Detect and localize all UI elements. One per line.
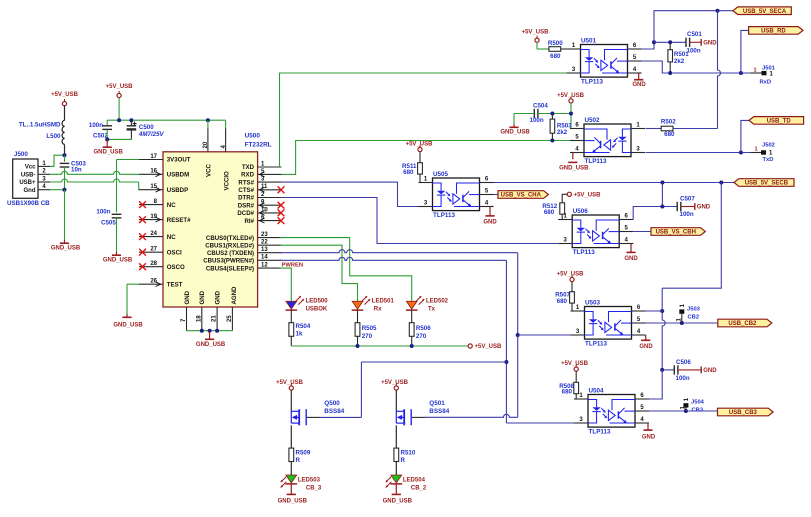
- svg-text:USB-: USB-: [21, 173, 36, 179]
- svg-text:15: 15: [150, 184, 157, 190]
- pin 6 RI#: [258, 220, 282, 222]
- power +5V_USB (R500): [535, 38, 539, 42]
- svg-text:U506: U506: [573, 208, 589, 215]
- svg-text:+5V_USB: +5V_USB: [557, 93, 585, 99]
- svg-text:+5V_USB: +5V_USB: [276, 380, 304, 386]
- wire U503 pin6 to SECB: [646, 310, 663, 312]
- svg-text:GND: GND: [703, 41, 717, 47]
- wire USBDM: [50, 171, 139, 174]
- svg-text:U505: U505: [433, 171, 449, 178]
- wire GND bus bottom: [187, 330, 233, 332]
- svg-text:100n: 100n: [680, 211, 694, 218]
- svg-text:NC: NC: [167, 202, 176, 209]
- svg-text:GND: GND: [697, 205, 711, 211]
- svg-text:CBUS0(TXLED#): CBUS0(TXLED#): [206, 235, 254, 242]
- ground GND_USB (LED503): [290, 484, 292, 494]
- svg-text:U501: U501: [581, 38, 597, 45]
- svg-text:RI#: RI#: [245, 218, 255, 225]
- ground GND (C507): [681, 206, 695, 208]
- power +5V_USB (Q501): [394, 386, 398, 390]
- svg-text:GND: GND: [703, 368, 717, 374]
- pin 16 USBDM: [139, 173, 163, 175]
- svg-text:C505: C505: [101, 219, 116, 226]
- svg-text:GND_USB: GND_USB: [113, 323, 143, 329]
- svg-text:+5V_USB: +5V_USB: [522, 29, 550, 35]
- svg-text:USB_RD: USB_RD: [761, 29, 786, 35]
- svg-text:R506: R506: [416, 325, 431, 332]
- svg-text:LED503: LED503: [298, 478, 321, 484]
- ground GND_USB (C502): [106, 139, 108, 147]
- svg-text:GND_USB: GND_USB: [559, 166, 589, 172]
- svg-text:CBUS2 (TXDEN): CBUS2 (TXDEN): [207, 250, 254, 257]
- svg-text:100n: 100n: [96, 208, 110, 215]
- svg-text:TLP113: TLP113: [585, 340, 608, 347]
- transistor Q501 BSS84: [395, 390, 397, 411]
- svg-text:GND: GND: [639, 344, 653, 350]
- svg-text:GND_USB: GND_USB: [94, 149, 124, 155]
- ground GND_USB (TEST): [126, 314, 128, 318]
- svg-text:+5V_USB: +5V_USB: [574, 193, 602, 199]
- ground GND (C501): [690, 41, 702, 43]
- pin 14 CBUS3(PWREN#): [258, 259, 282, 261]
- wire U502 +5V node: [570, 103, 572, 129]
- svg-text:LED501: LED501: [372, 299, 395, 305]
- svg-text:CB3: CB3: [692, 407, 704, 413]
- svg-text:10: 10: [261, 207, 268, 213]
- svg-text:16: 16: [150, 169, 157, 175]
- wire RTS# net: [281, 182, 418, 206]
- svg-text:680: 680: [550, 53, 561, 60]
- svg-text:+5V_USB: +5V_USB: [557, 272, 585, 278]
- svg-text:BSS84: BSS84: [324, 408, 344, 415]
- pin 9 DSR#: [258, 204, 282, 206]
- svg-text:USB_5V_SECA: USB_5V_SECA: [743, 9, 787, 15]
- svg-text:+5V_USB: +5V_USB: [406, 142, 434, 148]
- node GND junction: [105, 137, 109, 141]
- op-amp U506 optocoupler: [572, 215, 619, 248]
- connector J500: [13, 159, 38, 198]
- svg-text:AGND: AGND: [231, 286, 238, 305]
- wire CBUS3 PWREN: [280, 257, 507, 260]
- LED LED504 CB_2: [391, 475, 402, 483]
- LED LED503 CB_3: [286, 475, 297, 483]
- power +5V_USB (L500 top): [62, 102, 66, 106]
- svg-text:2k2: 2k2: [674, 58, 685, 65]
- ground GND (C506): [678, 369, 701, 371]
- svg-text:RxD: RxD: [760, 79, 772, 85]
- connector J503: [679, 309, 684, 313]
- power +5V_USB (Q500): [289, 386, 293, 390]
- svg-text:19: 19: [150, 214, 157, 220]
- svg-text:Q500: Q500: [324, 400, 340, 407]
- svg-text:680: 680: [544, 209, 555, 216]
- svg-text:24: 24: [150, 231, 157, 237]
- ground GND_USB (U500): [209, 331, 211, 340]
- svg-text:17: 17: [150, 154, 157, 160]
- svg-text:TLP113: TLP113: [589, 428, 612, 435]
- svg-text:USB+: USB+: [19, 180, 36, 186]
- svg-text:CBUS1(RXLED#): CBUS1(RXLED#): [205, 242, 254, 249]
- svg-text:CB2: CB2: [688, 314, 700, 320]
- svg-text:U504: U504: [589, 388, 605, 395]
- svg-text:12: 12: [261, 263, 268, 269]
- ground GND (U504 pin4): [648, 422, 649, 424]
- svg-text:U502: U502: [585, 117, 601, 124]
- svg-text:680: 680: [557, 298, 568, 305]
- wire U501 pin5 to J501: [642, 61, 751, 73]
- wire CBUS1 RXLED: [280, 245, 358, 301]
- svg-text:R502: R502: [661, 118, 676, 125]
- svg-text:TxD: TxD: [763, 157, 774, 163]
- svg-text:C507: C507: [680, 195, 695, 202]
- resistor R507: [571, 282, 573, 292]
- svg-text:100n: 100n: [530, 117, 544, 124]
- svg-text:21: 21: [212, 315, 218, 322]
- resistor R503: [551, 114, 553, 120]
- svg-text:J502: J502: [762, 143, 775, 149]
- svg-text:TXD: TXD: [242, 164, 255, 171]
- svg-text:13: 13: [261, 247, 268, 253]
- ground GND (U505 pin4): [490, 206, 494, 208]
- no-connect marks right pins: [278, 186, 285, 193]
- svg-text:CBUS3(PWREN#): CBUS3(PWREN#): [203, 258, 254, 265]
- svg-text:U503: U503: [585, 300, 601, 307]
- svg-text:CBUS4(SLEEP#): CBUS4(SLEEP#): [206, 265, 254, 272]
- resistor R500: [536, 42, 538, 49]
- svg-text:100n: 100n: [687, 48, 701, 55]
- ground GND_USB (C504): [513, 124, 515, 127]
- wire CBUS0 TXLED: [280, 238, 412, 302]
- svg-text:TL..1.5uHSMD: TL..1.5uHSMD: [19, 122, 61, 129]
- svg-text:CB_3: CB_3: [306, 486, 322, 492]
- svg-text:GND_USB: GND_USB: [51, 246, 81, 252]
- no-connect marks left pins: [139, 201, 146, 208]
- pin 27 OSCI: [139, 251, 163, 253]
- svg-text:TLP113: TLP113: [573, 249, 596, 256]
- LED LED500 USBOK: [286, 301, 297, 309]
- svg-text:C504: C504: [533, 102, 548, 109]
- pin 22 CBUS1(RXLED#): [258, 244, 282, 246]
- svg-text:USBDM: USBDM: [167, 172, 189, 179]
- wire TxD row to J502: [646, 152, 751, 154]
- wire USB_RD branch: [741, 30, 749, 73]
- svg-text:RXD: RXD: [241, 172, 254, 179]
- op-amp U504 optocoupler: [588, 395, 635, 428]
- svg-text:10n: 10n: [71, 166, 82, 173]
- resistor R505: [357, 310, 359, 323]
- svg-text:DCD#: DCD#: [237, 210, 254, 217]
- svg-text:C501: C501: [687, 31, 702, 38]
- wire LED +5V rail: [291, 345, 468, 347]
- pin 23 CBUS0(TXLED#): [258, 237, 282, 239]
- capacitor C501: [685, 38, 687, 47]
- flag USB_TD: [749, 117, 804, 125]
- pin 17 3V3OUT: [139, 159, 163, 161]
- svg-text:1k: 1k: [296, 331, 303, 338]
- svg-text:680: 680: [562, 388, 573, 395]
- svg-text:GND: GND: [642, 435, 656, 441]
- svg-text:3V3OUT: 3V3OUT: [167, 157, 191, 164]
- pin 4 VCCIO: [225, 128, 227, 152]
- wire U506 pin6 to SECB: [633, 207, 677, 220]
- svg-text:R: R: [296, 457, 301, 464]
- svg-text:Tx: Tx: [428, 306, 436, 312]
- svg-text:USB_TD: USB_TD: [767, 119, 792, 125]
- svg-text:14: 14: [261, 255, 268, 261]
- svg-text:+5V_USB: +5V_USB: [475, 344, 503, 350]
- svg-text:L500: L500: [46, 133, 61, 140]
- svg-text:GND_USB: GND_USB: [383, 498, 413, 504]
- resistor R501: [654, 41, 686, 43]
- svg-text:J500: J500: [14, 151, 28, 158]
- flag USB_CB2: [718, 319, 772, 327]
- wire 3V3OUT to C505: [117, 159, 140, 161]
- resistor R504: [290, 310, 292, 323]
- resistor R506: [411, 310, 413, 323]
- wire cap bottoms: [106, 130, 108, 140]
- transistor Q500 BSS84: [290, 390, 292, 411]
- svg-text:270: 270: [416, 333, 427, 340]
- wire U504 pin6: [649, 370, 662, 399]
- svg-text:R505: R505: [362, 325, 377, 332]
- svg-text:GND: GND: [632, 82, 646, 88]
- svg-text:270: 270: [362, 333, 373, 340]
- pin 13 CBUS2 (TXDEN): [258, 252, 282, 254]
- svg-text:18: 18: [196, 315, 202, 322]
- wire USBDP: [50, 179, 139, 182]
- svg-text:+5V_USB: +5V_USB: [381, 380, 409, 386]
- svg-text:DSR#: DSR#: [238, 202, 255, 209]
- svg-text:RTS#: RTS#: [238, 179, 254, 186]
- op-amp U502 optocoupler: [584, 124, 631, 157]
- svg-text:+5V_USB: +5V_USB: [106, 84, 134, 90]
- svg-text:USBDP: USBDP: [167, 187, 188, 194]
- ground GND_USB (U502 pin4): [572, 153, 574, 160]
- flag USB_RD: [749, 27, 803, 35]
- svg-text:20: 20: [203, 141, 209, 148]
- pin 2 DTR#: [258, 197, 282, 199]
- capacitor C507: [676, 202, 678, 211]
- wire DTR# net: [281, 198, 558, 244]
- pin 10 DCD#: [258, 212, 282, 214]
- svg-text:CTS#: CTS#: [238, 187, 254, 194]
- power +5V_USB (C500): [117, 93, 121, 97]
- svg-text:23: 23: [261, 232, 268, 238]
- flag USB_VS_CBH: [633, 231, 651, 233]
- pin 3 RTS#: [258, 181, 282, 183]
- svg-text:+5V_USB: +5V_USB: [561, 361, 589, 367]
- pin 28 OSCO: [139, 266, 163, 268]
- svg-text:GND_USB: GND_USB: [500, 130, 530, 136]
- svg-text:26: 26: [150, 279, 157, 285]
- wire RXD net: [281, 141, 570, 175]
- capacitor C502: [102, 125, 112, 127]
- svg-text:GND: GND: [214, 290, 221, 304]
- svg-text:11: 11: [261, 184, 268, 190]
- pin 19 RESET#: [139, 219, 163, 221]
- svg-text:Q501: Q501: [429, 400, 445, 407]
- wire J500 pin4: [50, 189, 65, 191]
- svg-text:PWREN: PWREN: [282, 262, 304, 268]
- wire USB_CB2 row: [646, 322, 718, 324]
- svg-text:GND: GND: [624, 256, 638, 262]
- svg-text:27: 27: [150, 247, 157, 253]
- wire VBUS J500 pin1: [50, 155, 65, 166]
- power +5V_USB (LED rail): [468, 344, 472, 348]
- resistor R511: [419, 152, 421, 163]
- svg-text:Vcc: Vcc: [25, 165, 36, 171]
- ground GND (U506 pin4): [631, 243, 633, 245]
- node pin4 junction: [63, 188, 67, 192]
- LED LED502 Tx: [406, 301, 417, 309]
- svg-text:CB_2: CB_2: [411, 486, 427, 492]
- svg-text:LED500: LED500: [306, 299, 329, 305]
- flag USB_CB3: [718, 408, 774, 416]
- wire C503 to GND branch: [64, 167, 66, 190]
- svg-text:680: 680: [664, 131, 675, 138]
- wire CBUS4 SLEEP to LED500: [280, 268, 292, 301]
- ground GND (U501 pin4): [639, 72, 642, 74]
- svg-text:USB_5V_SECB: USB_5V_SECB: [745, 181, 789, 187]
- svg-text:Rx: Rx: [374, 306, 382, 312]
- svg-text:J503: J503: [687, 306, 701, 312]
- capacitor C500: [127, 125, 137, 127]
- power +5V_USB (R511): [418, 147, 422, 151]
- ground GND_USB (J500): [64, 240, 66, 244]
- pin 15 USBDP: [139, 189, 163, 191]
- svg-text:VCCIO: VCCIO: [223, 171, 230, 191]
- pin 26 TEST: [139, 283, 163, 285]
- capacitor C505: [112, 213, 122, 215]
- svg-text:C500: C500: [139, 124, 154, 131]
- wire USB_CB3 row: [649, 410, 718, 412]
- op-amp U501 optocoupler: [581, 45, 628, 78]
- svg-text:GND_USB: GND_USB: [196, 342, 226, 348]
- svg-text:LED504: LED504: [403, 478, 426, 484]
- svg-text:FT232RL: FT232RL: [245, 142, 272, 149]
- power +5V_USB (R507): [570, 277, 574, 281]
- svg-text:TEST: TEST: [167, 281, 183, 288]
- svg-text:GND: GND: [184, 290, 191, 304]
- svg-text:OSCO: OSCO: [167, 264, 185, 271]
- svg-text:USB_CB3: USB_CB3: [729, 410, 758, 416]
- capacitor C503: [64, 155, 66, 162]
- ground GND (U503 pin4): [645, 334, 647, 336]
- flag USB_5V_SECA: [733, 7, 791, 15]
- wire CBUS2 TXDEN: [280, 250, 518, 253]
- wire R502 to SECA rail: [718, 11, 721, 129]
- flag USB_VS_CHA: [494, 194, 499, 196]
- svg-text:USB1X90B CB: USB1X90B CB: [7, 200, 50, 207]
- ground GND_USB (LED504): [395, 484, 397, 494]
- pin 5 RXD: [258, 173, 282, 175]
- inductor L500: [64, 106, 66, 121]
- op-amp U503 optocoupler: [585, 307, 632, 340]
- svg-text:100n: 100n: [676, 375, 690, 382]
- svg-text:R509: R509: [296, 449, 311, 456]
- svg-text:GND_USB: GND_USB: [103, 257, 133, 263]
- svg-text:USB_CB2: USB_CB2: [728, 321, 757, 327]
- power +5V_USB (U506): [567, 192, 571, 196]
- power +5V_USB (U502): [569, 99, 573, 103]
- svg-text:2k2: 2k2: [557, 129, 568, 136]
- resistor R512: [562, 194, 567, 203]
- IC U500 FT232RL: [163, 152, 258, 307]
- svg-text:R510: R510: [401, 449, 416, 456]
- resistor R510: [395, 425, 397, 448]
- svg-text:OSCI: OSCI: [167, 249, 182, 256]
- pin 12 CBUS4(SLEEP#): [258, 267, 282, 269]
- svg-text:USB_VS_CBH: USB_VS_CBH: [656, 230, 696, 236]
- svg-text:USBOK: USBOK: [306, 306, 328, 312]
- pin 11 CTS#: [258, 189, 282, 191]
- pin 8 NC: [139, 204, 163, 206]
- power +5V_USB (R508): [574, 367, 578, 371]
- flag USB_5V_SECB: [734, 179, 794, 187]
- svg-text:U500: U500: [245, 133, 261, 140]
- wire VCC net: [118, 98, 120, 121]
- svg-text:680: 680: [403, 169, 414, 176]
- pins GND bottom: [186, 307, 188, 331]
- svg-text:R500: R500: [548, 40, 563, 47]
- svg-text:C506: C506: [676, 359, 691, 366]
- svg-text:J504: J504: [691, 399, 705, 405]
- svg-text:GND: GND: [483, 219, 497, 225]
- node VBUS junction: [63, 153, 67, 157]
- svg-text:GND_USB: GND_USB: [278, 498, 308, 504]
- pin 1 TXD: [258, 166, 282, 168]
- svg-text:22: 22: [261, 240, 268, 246]
- op-amp U505 optocoupler: [433, 178, 480, 211]
- capacitor C504: [533, 109, 535, 118]
- LED LED501 Rx: [352, 301, 363, 309]
- svg-text:BSS84: BSS84: [429, 408, 449, 415]
- svg-text:100n: 100n: [89, 122, 103, 129]
- svg-text:25: 25: [227, 315, 233, 322]
- svg-text:GND: GND: [199, 290, 206, 304]
- resistor R508: [575, 371, 577, 382]
- svg-text:+5V_USB: +5V_USB: [51, 92, 79, 98]
- ground GND_USB (C505): [116, 252, 118, 256]
- svg-text:DTR#: DTR#: [238, 195, 255, 202]
- svg-text:Gnd: Gnd: [24, 188, 36, 194]
- svg-text:TLP113: TLP113: [433, 212, 456, 219]
- resistor R502: [646, 128, 662, 130]
- wire TXD net: [280, 73, 567, 167]
- svg-text:R504: R504: [296, 323, 311, 330]
- svg-text:VCC: VCC: [206, 164, 213, 177]
- connector J502: [761, 150, 766, 154]
- svg-text:LED502: LED502: [426, 299, 449, 305]
- pin 20 VCC: [207, 128, 209, 152]
- wire TEST to GND: [127, 283, 139, 285]
- pin 24 NC: [139, 236, 163, 238]
- connector J501: [762, 71, 767, 75]
- capacitor C506: [660, 368, 664, 372]
- svg-text:4M7/25V: 4M7/25V: [138, 131, 165, 138]
- svg-text:R: R: [401, 457, 406, 464]
- svg-text:RESET#: RESET#: [167, 217, 191, 224]
- svg-text:1: 1: [754, 147, 757, 153]
- wire C504 to GND: [514, 113, 534, 115]
- svg-text:28: 28: [150, 261, 157, 267]
- svg-text:TLP113: TLP113: [581, 78, 604, 85]
- connector J504: [683, 403, 688, 407]
- wire U501 pin6 to SECA rail: [642, 11, 734, 49]
- svg-text:USB_VS_CHA: USB_VS_CHA: [501, 193, 542, 199]
- svg-text:1: 1: [753, 67, 756, 73]
- svg-text:NC: NC: [167, 234, 176, 241]
